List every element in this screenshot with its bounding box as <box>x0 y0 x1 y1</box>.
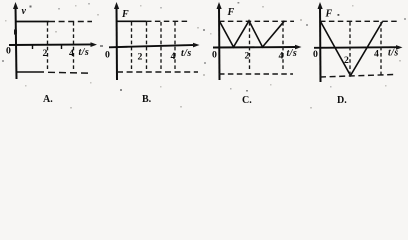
bottom level line -v (long dashes) <box>16 71 44 73</box>
svg-text:0: 0 <box>6 46 11 57</box>
svg-text:t/s: t/s <box>79 47 90 58</box>
svg-text:C.: C. <box>242 95 252 106</box>
F-axis (vertical) <box>114 2 119 80</box>
svg-text:F: F <box>325 9 333 20</box>
top level line +v (solid then dashed) <box>16 21 49 23</box>
t-axis (horizontal) <box>109 43 200 48</box>
svg-text:4: 4 <box>171 51 176 62</box>
svg-text:t/s: t/s <box>388 48 399 59</box>
tick mark t=1 <box>32 45 34 49</box>
svg-text:4: 4 <box>69 48 74 59</box>
dashed +F level line <box>219 20 294 22</box>
svg-text:t/s: t/s <box>287 48 298 59</box>
dashed vertical at t=4 <box>73 22 75 71</box>
svg-text:0: 0 <box>212 50 217 61</box>
dashed vertical at t=2 <box>47 22 49 71</box>
svg-text:4: 4 <box>374 49 379 60</box>
dashed vertical at t=3 <box>160 22 162 71</box>
svg-text:F: F <box>121 9 129 20</box>
dashed vertical at t=2 <box>249 22 251 71</box>
scan speckles <box>2 2 406 92</box>
dashed vertical at t=1 <box>131 22 133 71</box>
t-axis (horizontal) <box>213 45 302 50</box>
F-axis (vertical) <box>318 2 323 82</box>
dashed +F level line <box>320 20 398 22</box>
tick mark t=3 <box>61 45 63 49</box>
bottom -F dashed level line <box>219 73 293 75</box>
bottom level line -F (dashed) <box>117 71 198 73</box>
ink blob on v-axis <box>14 29 17 35</box>
svg-text:B.: B. <box>142 94 152 105</box>
svg-text:F: F <box>227 7 235 18</box>
t-axis (horizontal) <box>314 45 403 50</box>
dashed vertical at t=4 <box>380 22 382 75</box>
t-axis (horizontal) <box>9 42 97 47</box>
scan speckles (paper noise) <box>5 5 401 109</box>
bottom -F dashed level line <box>320 75 394 78</box>
v-axis (vertical) <box>13 2 18 79</box>
svg-text:v: v <box>22 6 27 17</box>
svg-text:A.: A. <box>43 94 53 105</box>
svg-text:t/s: t/s <box>181 48 192 59</box>
svg-text:0: 0 <box>313 49 318 60</box>
svg-text:D.: D. <box>337 95 347 106</box>
svg-text:2: 2 <box>43 48 48 59</box>
dashed vertical at t=2 <box>146 22 148 71</box>
svg-text:2: 2 <box>245 51 250 62</box>
dashed vertical at t=2 <box>349 22 351 75</box>
svg-text:2: 2 <box>138 52 143 63</box>
svg-text:2: 2 <box>344 55 349 66</box>
svg-text:0: 0 <box>105 50 110 61</box>
dashed vertical at t=4 <box>282 22 284 71</box>
dashed vertical at t=4 <box>174 22 176 71</box>
svg-text:4: 4 <box>279 51 284 62</box>
top level line +F (solid then dashed) <box>117 20 146 22</box>
triangle wave <box>220 21 285 47</box>
big V wave <box>321 22 383 76</box>
F-axis (vertical) <box>217 2 222 80</box>
